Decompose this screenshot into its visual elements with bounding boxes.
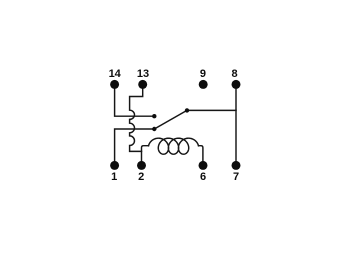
svg-text:8: 8 [231,68,237,80]
svg-text:2: 2 [138,171,144,183]
svg-text:1: 1 [111,171,117,183]
svg-text:14: 14 [109,68,122,80]
svg-text:9: 9 [200,68,206,80]
svg-text:6: 6 [200,171,206,183]
svg-text:13: 13 [137,68,149,80]
svg-text:7: 7 [233,171,239,183]
